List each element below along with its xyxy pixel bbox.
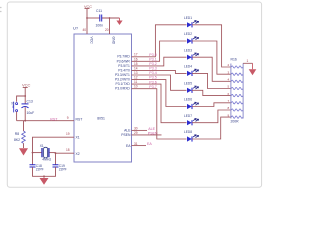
svg-text:LED7: LED7 <box>184 114 192 118</box>
svg-text:P3.5/T1: P3.5/T1 <box>118 64 130 68</box>
svg-text:LED2: LED2 <box>184 32 192 36</box>
svg-text:ALE: ALE <box>124 129 131 133</box>
svg-text:P3.6: P3.6 <box>149 80 156 84</box>
svg-text:LED1: LED1 <box>184 16 192 20</box>
svg-text:U?: U? <box>73 26 79 31</box>
svg-text:P3.7: P3.7 <box>149 85 156 89</box>
svg-text:LED4: LED4 <box>184 65 192 69</box>
svg-text:R16: R16 <box>231 58 237 62</box>
svg-text:GND: GND <box>112 37 116 45</box>
svg-text:31: 31 <box>134 142 138 146</box>
svg-text:8051: 8051 <box>97 116 105 120</box>
svg-text:PSEN: PSEN <box>121 133 131 137</box>
svg-text:LED6: LED6 <box>184 98 192 102</box>
svg-text:X1: X1 <box>40 144 44 148</box>
svg-text:1: 1 <box>247 59 249 63</box>
svg-text:PSEN: PSEN <box>148 131 158 135</box>
svg-text:LED8: LED8 <box>184 130 192 134</box>
svg-text:30: 30 <box>134 127 138 131</box>
svg-text:15: 15 <box>134 62 138 66</box>
svg-text:X2: X2 <box>76 152 80 156</box>
svg-text:P3.6/WR: P3.6/WR <box>117 59 131 63</box>
svg-text:P3.5: P3.5 <box>149 76 156 80</box>
svg-text:4MHz: 4MHz <box>42 158 51 162</box>
svg-text:LED3: LED3 <box>184 48 192 52</box>
svg-text:11: 11 <box>134 80 138 84</box>
svg-text:EA: EA <box>147 142 152 146</box>
svg-text:C11: C11 <box>96 9 102 13</box>
svg-text:10: 10 <box>134 85 138 89</box>
svg-text:P3.4: P3.4 <box>149 71 156 75</box>
svg-text:22PF: 22PF <box>36 168 44 172</box>
svg-text:S?: S? <box>11 102 15 106</box>
svg-text:17: 17 <box>134 53 138 57</box>
svg-text:P3.2: P3.2 <box>149 62 156 66</box>
svg-text:18: 18 <box>66 148 70 152</box>
svg-text:RST: RST <box>76 117 83 121</box>
svg-text:P3.7/RD: P3.7/RD <box>117 55 130 59</box>
svg-text:29: 29 <box>134 131 138 135</box>
svg-text:8K2: 8K2 <box>14 138 20 142</box>
svg-text:20: 20 <box>105 28 109 32</box>
svg-text:P3.4/T0: P3.4/T0 <box>118 68 130 72</box>
svg-text:P3.1/TXD: P3.1/TXD <box>116 82 131 86</box>
svg-text:22PF: 22PF <box>59 168 67 172</box>
svg-text:9: 9 <box>67 116 69 120</box>
svg-text:P3.3/INT1: P3.3/INT1 <box>115 73 130 77</box>
svg-text:16: 16 <box>134 57 138 61</box>
svg-text:X1: X1 <box>76 136 80 140</box>
svg-text:12: 12 <box>134 76 138 80</box>
svg-text:P3.2/INT0: P3.2/INT0 <box>115 78 130 82</box>
svg-text:40: 40 <box>83 28 87 32</box>
svg-text:C13: C13 <box>27 100 33 104</box>
svg-text:P3.0/RXD: P3.0/RXD <box>115 87 130 91</box>
svg-text:P3.0: P3.0 <box>149 53 156 57</box>
svg-text:LED5: LED5 <box>184 82 192 86</box>
svg-text:10uF: 10uF <box>27 111 35 115</box>
svg-text:13: 13 <box>134 71 138 75</box>
svg-text:VCC: VCC <box>22 83 31 88</box>
svg-text:P3.1: P3.1 <box>149 58 156 62</box>
svg-text:19: 19 <box>66 132 70 136</box>
svg-text:RST: RST <box>50 117 58 121</box>
svg-text:14: 14 <box>134 66 138 70</box>
svg-text:EA: EA <box>126 144 131 148</box>
svg-text:ALE: ALE <box>148 127 155 131</box>
svg-text:VCC: VCC <box>90 37 94 45</box>
svg-text:R8: R8 <box>15 132 19 136</box>
svg-text:P3.3: P3.3 <box>149 67 156 71</box>
svg-text:200R: 200R <box>231 119 240 123</box>
svg-text:100n: 100n <box>96 24 104 28</box>
